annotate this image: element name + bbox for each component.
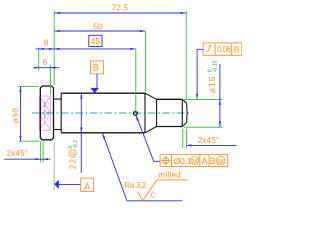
shaft left face — [60, 93, 62, 133]
small cylinder top edge — [157, 98, 183, 100]
svg-text:E: E — [71, 151, 77, 155]
extension line phi15 top — [184, 98, 222, 100]
dimension 2x45 left — [4, 158, 51, 160]
datum A extension line gray — [53, 142, 55, 191]
cone top line — [145, 93, 157, 99]
cone base circle line — [144, 93, 146, 133]
cone bottom line — [145, 127, 157, 133]
extension line phi15 bottom — [184, 126, 222, 128]
svg-text:B: B — [234, 44, 240, 54]
svg-text:M: M — [192, 158, 197, 165]
end face — [186, 103, 188, 122]
svg-text:2x45°: 2x45° — [7, 149, 29, 158]
dimension phi15 line — [219, 64, 221, 127]
dimension 72.5 line — [54, 12, 186, 14]
position leader — [136, 115, 160, 161]
position feature control frame — [160, 155, 228, 167]
knurl box upper — [39, 96, 50, 112]
part head outline — [40, 86, 53, 140]
dimension phi15 text — [207, 60, 218, 93]
end chamfer bottom — [183, 123, 187, 127]
knurl box lower — [39, 114, 50, 130]
svg-text:C: C — [151, 192, 156, 199]
extension line head right face shared — [53, 11, 55, 86]
dimension 2x45 right — [187, 144, 237, 146]
svg-text:Ra 3,2: Ra 3,2 — [124, 181, 146, 190]
extension lines chamfer right 2x45 — [182, 129, 184, 148]
extension lines chamfer left 2x45 — [39, 142, 41, 163]
shaft top edge — [61, 92, 145, 94]
extension line 6 right knurl edge — [49, 65, 51, 95]
svg-text:8: 8 — [44, 39, 49, 48]
extension line 6 and 8 left — [38, 48, 40, 71]
milled hole circle — [134, 112, 138, 116]
svg-text:A: A — [84, 181, 90, 191]
dimension 45 basic box — [89, 35, 102, 46]
surface finish symbol — [138, 180, 188, 201]
svg-text:B: B — [93, 62, 99, 72]
thread chamfer circle line — [181, 99, 183, 126]
svg-text:ø15: ø15 — [207, 76, 217, 94]
svg-text:milled: milled — [158, 170, 181, 179]
extension line 45 basic — [135, 49, 137, 111]
svg-text:ø30: ø30 — [11, 107, 20, 123]
svg-text:B: B — [210, 156, 216, 166]
extension line 50 — [145, 31, 147, 92]
svg-text:Ø0,1: Ø0,1 — [174, 156, 192, 166]
dimension 6 line — [34, 67, 60, 69]
end chamfer top — [183, 100, 187, 104]
runout feature control frame — [203, 43, 242, 55]
centerline head vertical cross — [44, 102, 46, 126]
extension line phi30 bottom — [19, 140, 39, 142]
dimension 22E line — [80, 93, 82, 173]
svg-text:-0.2: -0.2 — [73, 140, 79, 149]
svg-text:50: 50 — [93, 21, 103, 31]
groove top edge — [54, 98, 62, 99]
svg-text:2x45°: 2x45° — [198, 136, 220, 145]
runout leader — [196, 49, 203, 99]
extension line 72.5 — [185, 11, 187, 100]
svg-text:6: 6 — [42, 58, 47, 67]
dimension 50 line — [54, 30, 145, 32]
cone end circle line — [156, 99, 158, 126]
dimension phi30 line — [19, 87, 21, 141]
groove bottom edge — [54, 130, 62, 131]
dimension 45 and 8 shared line — [36, 48, 136, 50]
small cylinder bottom edge — [157, 126, 183, 128]
datum A symbol — [54, 178, 93, 191]
dimension 22E text — [68, 140, 79, 169]
svg-text:72.5: 72.5 — [112, 3, 129, 13]
centerline — [32, 112, 192, 114]
svg-text:-0.15: -0.15 — [212, 60, 218, 72]
svg-text:45: 45 — [90, 37, 100, 47]
datum B symbol — [90, 61, 103, 93]
svg-text:M: M — [218, 158, 224, 165]
svg-text:22: 22 — [68, 158, 77, 169]
svg-text:A: A — [201, 156, 207, 166]
extension line phi30 top — [19, 85, 39, 87]
shaft bottom edge — [61, 132, 145, 134]
svg-text:0,08: 0,08 — [217, 45, 231, 54]
surface finish leader — [102, 133, 182, 201]
